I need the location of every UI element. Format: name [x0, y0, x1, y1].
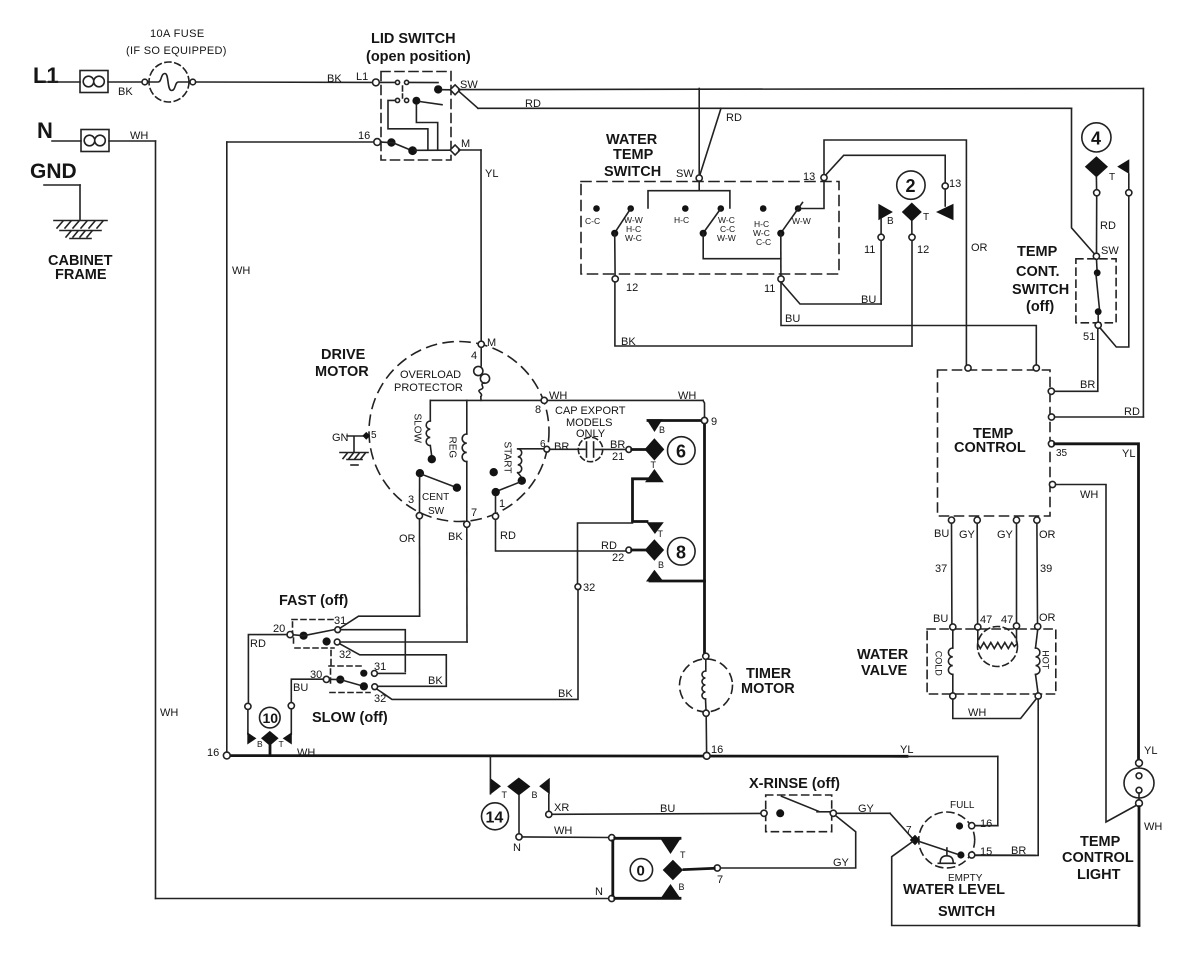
svg-text:8: 8	[535, 404, 541, 416]
svg-text:WH: WH	[1080, 489, 1098, 501]
svg-text:WH: WH	[678, 390, 696, 402]
svg-text:M: M	[487, 337, 496, 349]
svg-text:1: 1	[499, 498, 505, 510]
svg-text:B: B	[679, 882, 685, 892]
svg-text:BU: BU	[785, 313, 800, 325]
svg-text:BK: BK	[327, 73, 342, 85]
svg-text:(off): (off)	[1026, 299, 1054, 315]
svg-text:YL: YL	[900, 744, 913, 756]
svg-text:WH: WH	[1144, 821, 1162, 833]
svg-text:C-C: C-C	[585, 216, 600, 226]
svg-text:47: 47	[1001, 614, 1013, 626]
svg-text:N: N	[37, 118, 53, 143]
svg-text:15: 15	[980, 846, 992, 858]
svg-text:START: START	[502, 442, 513, 474]
svg-text:37: 37	[935, 563, 947, 575]
svg-text:BK: BK	[621, 336, 636, 348]
svg-text:SWITCH: SWITCH	[604, 164, 661, 180]
svg-text:7: 7	[906, 825, 912, 836]
svg-text:BK: BK	[558, 688, 573, 700]
svg-text:C-C: C-C	[756, 237, 771, 247]
svg-text:T: T	[279, 739, 284, 749]
svg-text:RD: RD	[1124, 406, 1140, 418]
svg-text:11: 11	[764, 283, 775, 295]
svg-text:WH: WH	[968, 707, 986, 719]
svg-text:BR: BR	[554, 441, 569, 453]
svg-text:SWITCH: SWITCH	[1012, 282, 1069, 298]
svg-text:FAST (off): FAST (off)	[279, 593, 348, 609]
svg-text:(IF SO EQUIPPED): (IF SO EQUIPPED)	[126, 45, 227, 57]
svg-text:32: 32	[339, 649, 351, 661]
svg-text:T: T	[502, 790, 508, 800]
svg-text:32: 32	[374, 693, 386, 705]
svg-text:RD: RD	[500, 530, 516, 542]
svg-text:13: 13	[803, 171, 815, 183]
svg-text:13: 13	[949, 178, 961, 190]
svg-text:TIMER: TIMER	[746, 666, 792, 682]
svg-text:TEMP: TEMP	[613, 147, 654, 163]
svg-text:22: 22	[612, 552, 624, 564]
svg-text:BR: BR	[1080, 379, 1095, 391]
svg-text:BK: BK	[448, 531, 463, 543]
svg-text:10A FUSE: 10A FUSE	[150, 28, 205, 40]
svg-text:PROTECTOR: PROTECTOR	[394, 382, 463, 394]
svg-text:21: 21	[612, 451, 624, 463]
svg-text:OVERLOAD: OVERLOAD	[400, 369, 461, 381]
svg-text:T: T	[651, 460, 657, 470]
svg-text:OR: OR	[1039, 612, 1056, 624]
svg-text:N: N	[513, 842, 521, 854]
svg-text:B: B	[658, 560, 664, 570]
svg-text:SWITCH: SWITCH	[938, 904, 995, 920]
svg-text:DRIVE: DRIVE	[321, 347, 366, 363]
svg-text:H-C: H-C	[674, 215, 689, 225]
svg-text:GY: GY	[833, 857, 850, 869]
svg-text:SW: SW	[428, 506, 445, 517]
svg-text:HOT: HOT	[1040, 650, 1050, 670]
svg-text:ONLY: ONLY	[576, 428, 606, 440]
svg-text:CONTROL: CONTROL	[1062, 850, 1134, 866]
svg-text:WH: WH	[554, 825, 572, 837]
svg-text:31: 31	[374, 661, 386, 673]
svg-text:OR: OR	[971, 242, 988, 254]
svg-text:CENT: CENT	[422, 492, 449, 503]
svg-text:WH: WH	[232, 265, 250, 277]
svg-text:WATER LEVEL: WATER LEVEL	[903, 882, 1005, 898]
svg-text:W-W: W-W	[792, 216, 811, 226]
svg-text:B: B	[257, 739, 263, 749]
svg-text:GN: GN	[332, 432, 349, 444]
svg-text:B: B	[887, 216, 894, 227]
svg-text:(open position): (open position)	[366, 49, 471, 65]
svg-text:16: 16	[980, 818, 992, 830]
svg-text:8: 8	[676, 543, 686, 563]
svg-text:COLD: COLD	[933, 651, 943, 677]
svg-text:6: 6	[540, 439, 546, 450]
svg-text:RD: RD	[525, 98, 541, 110]
svg-text:35: 35	[1056, 448, 1068, 459]
svg-text:14: 14	[486, 810, 504, 827]
svg-text:BU: BU	[660, 803, 675, 815]
svg-text:4: 4	[471, 350, 477, 362]
svg-text:SLOW: SLOW	[412, 414, 423, 444]
svg-text:TEMP: TEMP	[1017, 244, 1058, 260]
svg-text:MOTOR: MOTOR	[741, 681, 795, 697]
svg-text:N: N	[595, 886, 603, 898]
svg-text:T: T	[658, 529, 664, 539]
svg-text:FRAME: FRAME	[55, 267, 107, 283]
svg-text:OR: OR	[1039, 529, 1056, 541]
svg-text:B: B	[532, 790, 538, 800]
svg-text:XR: XR	[554, 802, 569, 814]
svg-text:BU: BU	[934, 528, 949, 540]
svg-text:CONTROL: CONTROL	[954, 440, 1026, 456]
svg-text:7: 7	[471, 507, 477, 519]
svg-text:RD: RD	[250, 638, 266, 650]
svg-text:YL: YL	[485, 168, 498, 180]
svg-text:BK: BK	[428, 675, 443, 687]
svg-text:L1: L1	[33, 63, 59, 88]
svg-text:GY: GY	[858, 803, 875, 815]
svg-text:47: 47	[980, 614, 992, 626]
svg-text:BU: BU	[933, 613, 948, 625]
svg-text:CAP EXPORT: CAP EXPORT	[555, 405, 626, 417]
svg-text:W-W: W-W	[717, 233, 736, 243]
svg-text:OR: OR	[399, 533, 416, 545]
svg-text:TEMP: TEMP	[1080, 834, 1121, 850]
svg-text:BU: BU	[293, 682, 308, 694]
svg-text:WH: WH	[297, 747, 315, 759]
svg-text:FULL: FULL	[950, 800, 975, 811]
svg-text:SLOW (off): SLOW (off)	[312, 710, 388, 726]
svg-text:2: 2	[906, 176, 916, 196]
svg-text:VALVE: VALVE	[861, 663, 908, 679]
svg-text:LID SWITCH: LID SWITCH	[371, 31, 456, 47]
svg-text:WH: WH	[160, 707, 178, 719]
svg-text:16: 16	[358, 130, 370, 142]
svg-text:T: T	[680, 850, 686, 860]
svg-text:GND: GND	[30, 160, 77, 183]
svg-text:CONT.: CONT.	[1016, 264, 1060, 280]
svg-text:10: 10	[263, 710, 279, 726]
svg-text:REG: REG	[447, 437, 458, 459]
svg-text:B: B	[659, 425, 665, 435]
svg-text:11: 11	[864, 244, 875, 256]
svg-text:51: 51	[1083, 331, 1095, 343]
svg-text:3: 3	[408, 494, 414, 506]
svg-text:RD: RD	[726, 112, 742, 124]
svg-text:12: 12	[917, 244, 929, 256]
svg-text:39: 39	[1040, 563, 1052, 575]
svg-text:16: 16	[207, 747, 219, 759]
svg-text:X-RINSE (off): X-RINSE (off)	[749, 776, 840, 792]
svg-text:RD: RD	[601, 540, 617, 552]
svg-text:GY: GY	[997, 529, 1014, 541]
svg-text:T: T	[1109, 172, 1115, 183]
svg-text:7: 7	[717, 874, 723, 886]
svg-text:WATER: WATER	[857, 647, 909, 663]
svg-text:SW: SW	[1101, 245, 1119, 257]
svg-text:M: M	[461, 138, 470, 150]
svg-text:SW: SW	[676, 168, 694, 180]
svg-text:L1: L1	[356, 71, 368, 83]
svg-text:0: 0	[637, 863, 645, 880]
svg-text:BU: BU	[861, 294, 876, 306]
svg-text:5: 5	[371, 430, 377, 441]
svg-text:4: 4	[1091, 129, 1101, 149]
svg-text:BK: BK	[118, 86, 133, 98]
svg-text:20: 20	[273, 623, 285, 635]
svg-text:YL: YL	[1144, 745, 1157, 757]
svg-text:W-C: W-C	[625, 233, 642, 243]
svg-text:WATER: WATER	[606, 132, 658, 148]
svg-text:16: 16	[711, 744, 723, 756]
svg-text:BR: BR	[610, 439, 625, 451]
svg-text:T: T	[923, 212, 929, 223]
svg-text:6: 6	[676, 442, 686, 462]
svg-text:32: 32	[583, 582, 595, 594]
svg-text:YL: YL	[1122, 448, 1135, 460]
svg-text:12: 12	[626, 282, 638, 294]
svg-text:GY: GY	[959, 529, 976, 541]
svg-text:RD: RD	[1100, 220, 1116, 232]
svg-text:9: 9	[711, 416, 717, 428]
svg-text:LIGHT: LIGHT	[1077, 867, 1121, 883]
svg-text:MOTOR: MOTOR	[315, 364, 369, 380]
